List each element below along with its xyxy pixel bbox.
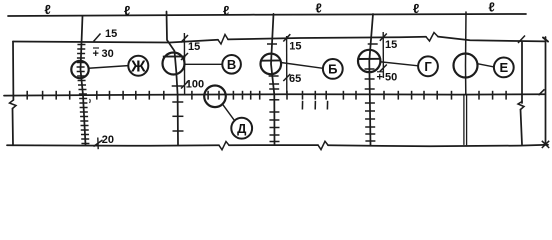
svg-text:ℓ: ℓ <box>316 1 322 16</box>
svg-text:Г: Г <box>424 59 432 74</box>
svg-text:ℓ: ℓ <box>413 1 419 16</box>
svg-text:15: 15 <box>188 41 200 53</box>
svg-text:В: В <box>227 57 236 72</box>
svg-text:Е: Е <box>499 60 508 75</box>
svg-text:Д: Д <box>237 121 247 136</box>
svg-text:15: 15 <box>289 40 301 52</box>
svg-text:ℓ: ℓ <box>124 3 130 18</box>
svg-text:20: 20 <box>102 134 114 146</box>
svg-text:15: 15 <box>105 28 117 40</box>
svg-text:ℓ: ℓ <box>223 3 229 18</box>
svg-text:+: + <box>93 48 99 60</box>
svg-text:Б: Б <box>328 62 337 77</box>
svg-text:Ж: Ж <box>130 59 146 76</box>
svg-text:ℓ: ℓ <box>489 0 495 15</box>
svg-text:ℓ: ℓ <box>45 2 51 17</box>
svg-text:100: 100 <box>186 79 204 91</box>
svg-text:+: + <box>377 72 383 84</box>
svg-text:15: 15 <box>385 39 397 51</box>
svg-text:30: 30 <box>102 48 114 60</box>
svg-text:65: 65 <box>289 73 301 85</box>
svg-text:50: 50 <box>385 72 397 84</box>
